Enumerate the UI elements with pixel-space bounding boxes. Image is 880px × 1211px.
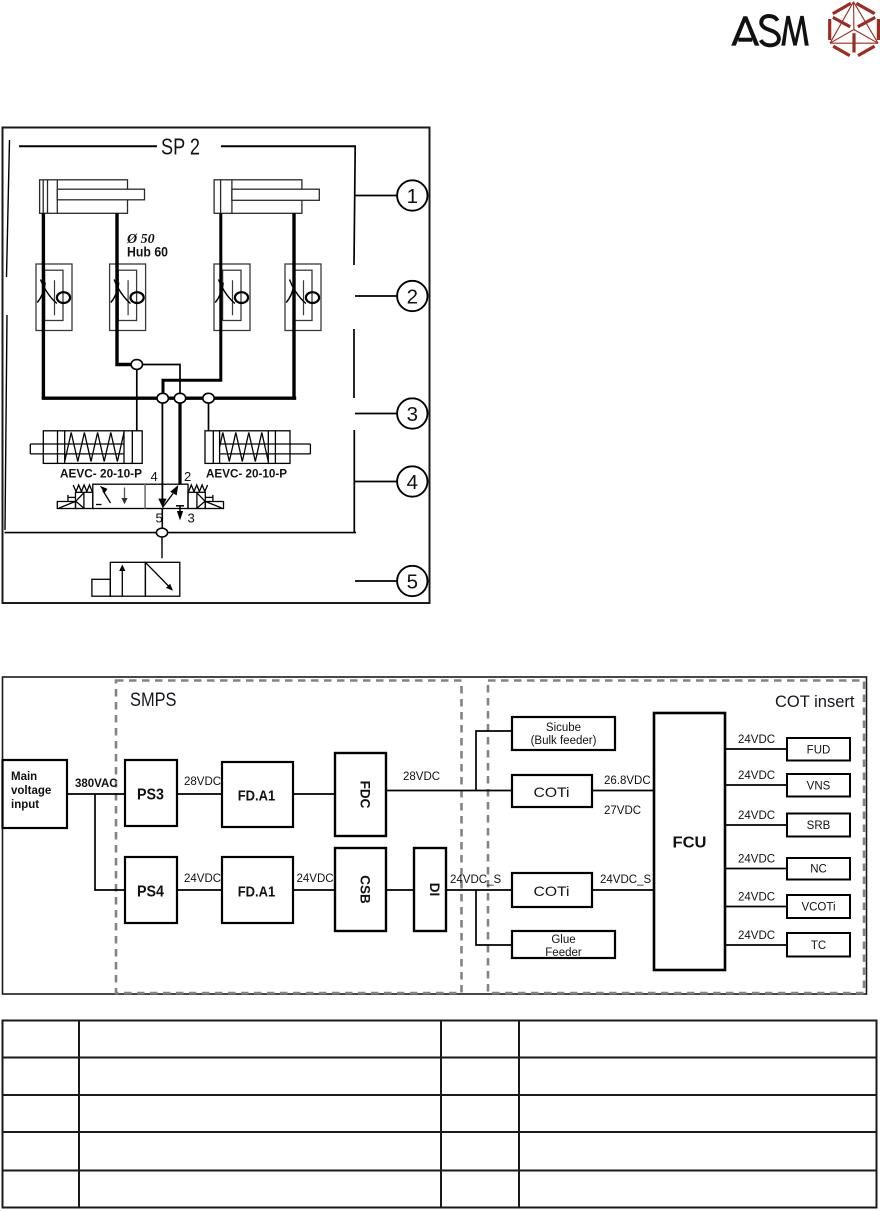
box COTi bottom: [512, 873, 592, 907]
pilot right box: [188, 492, 205, 508]
svg-text:24VDC_S: 24VDC_S: [450, 874, 501, 886]
pilot right supply step: [205, 502, 223, 509]
svg-text:FDC: FDC: [358, 781, 373, 809]
svg-text:24VDC: 24VDC: [738, 854, 775, 866]
box CSB: [335, 848, 386, 931]
box VCOTi: [787, 895, 850, 918]
svg-text:28VDC: 28VDC: [403, 771, 440, 783]
flow control valve V3: [214, 264, 250, 331]
wire FCU to SRB: [725, 824, 787, 826]
svg-text:27VDC: 27VDC: [604, 805, 641, 817]
node B junction: [157, 393, 168, 403]
box Sicube: [512, 717, 615, 750]
wire DI to COTi2: [446, 889, 512, 891]
wire node E down to 3/2 valve: [161, 537, 163, 558]
svg-text:2: 2: [407, 285, 418, 308]
wire cyl1 left port down to bus: [42, 213, 45, 398]
wire node D down to right AEVC: [208, 403, 210, 431]
wire FCU to FUD: [725, 748, 787, 750]
svg-text:Hub 60: Hub 60: [127, 245, 168, 260]
logo text ASM: [731, 16, 809, 46]
svg-text:380VAC: 380VAC: [75, 778, 118, 790]
svg-text:1: 1: [407, 185, 418, 208]
wire COTi2 to FCU: [592, 889, 654, 891]
box FDC: [335, 753, 386, 836]
svg-text:24VDC: 24VDC: [738, 734, 775, 746]
cylinder 2 (right): [214, 180, 319, 214]
wire FDC to COTi1: [386, 790, 512, 792]
outer frame box: [3, 128, 430, 604]
wire FCU to NC: [725, 868, 787, 870]
node D junction: [203, 393, 214, 403]
flow control valve V4: [285, 264, 321, 331]
table row line 4: [3, 1170, 877, 1172]
outer frame: [3, 677, 867, 994]
logo icon hexagon: [830, 2, 879, 56]
box TC: [787, 933, 850, 957]
node C junction: [174, 393, 185, 403]
svg-text:SMPS: SMPS: [130, 689, 177, 711]
manifold line horizontal: [5, 532, 357, 534]
box PS3: [125, 760, 177, 826]
COT insert dashed region: [488, 681, 864, 994]
svg-text:FUD: FUD: [807, 745, 831, 757]
svg-text:FD.A1: FD.A1: [238, 788, 276, 805]
wire node A down to left AEVC: [136, 370, 138, 431]
callout circle 5: [355, 566, 427, 596]
wire thick bus horizontal: [42, 397, 297, 400]
diagonal arrow: [146, 563, 169, 587]
title rule right: [221, 145, 356, 147]
wire PS4 to FD.A1b: [177, 889, 222, 891]
svg-text:24VDC: 24VDC: [297, 873, 334, 885]
svg-text:TC: TC: [811, 940, 826, 952]
svg-text:24VDC_S: 24VDC_S: [600, 874, 651, 886]
right chamber: port4 down arrow: [158, 499, 166, 508]
svg-text:VNS: VNS: [807, 781, 831, 793]
valve 5/2 body: [57, 484, 223, 520]
actuator AEVC left: [30, 431, 142, 464]
svg-text:SP 2: SP 2: [161, 134, 200, 160]
wire CSB to DI: [386, 889, 414, 891]
wire main to PS3: [67, 793, 125, 795]
svg-text:24VDC: 24VDC: [738, 770, 775, 782]
node A junction: [131, 360, 142, 370]
letter S: [761, 16, 779, 45]
box Glue Feeder: [512, 931, 615, 958]
svg-text:Glue: Glue: [551, 934, 575, 946]
box FCU: [654, 713, 725, 970]
letter M: [781, 16, 809, 46]
svg-text:DI: DI: [427, 883, 442, 897]
wire node B down port 4 feed: [161, 398, 163, 501]
left chamber minus: [96, 504, 102, 506]
svg-text:24VDC: 24VDC: [738, 810, 775, 822]
svg-text:2: 2: [184, 469, 191, 484]
box PS4: [125, 857, 177, 923]
svg-text:4: 4: [407, 471, 418, 494]
svg-text:24VDC: 24VDC: [738, 930, 775, 942]
title rule left: [19, 145, 157, 147]
valve 3/2 bottom: [92, 562, 180, 596]
box VNS: [787, 774, 850, 797]
svg-text:NC: NC: [810, 864, 827, 876]
node E junction: [156, 528, 167, 537]
svg-text:24VDC: 24VDC: [738, 892, 775, 904]
svg-text:Main: Main: [11, 771, 37, 783]
left chamber down arrow: [124, 488, 126, 500]
callout circle 4: [355, 466, 427, 496]
wire branch down to PS4: [95, 794, 125, 890]
wire cyl2 right port down to bus: [292, 213, 295, 398]
letter A: [731, 16, 759, 45]
svg-text:CSB: CSB: [358, 875, 373, 904]
box FD.A1 top: [222, 762, 293, 827]
svg-text:4: 4: [151, 469, 158, 484]
right chamber diagonal to port2: [163, 494, 174, 508]
up arrow: [121, 570, 123, 596]
svg-text:COT insert: COT insert: [775, 693, 855, 711]
box FUD: [787, 738, 850, 761]
wire FD.A1b to CSB: [293, 889, 335, 891]
svg-text:28VDC: 28VDC: [184, 776, 221, 788]
box SRB: [787, 814, 850, 837]
inner left border stroke b: [5, 315, 7, 530]
svg-text:FCU: FCU: [673, 835, 707, 852]
table column line 2: [440, 1021, 442, 1208]
wire cyl2 left port down then jog left: [163, 213, 221, 398]
table column line 3: [518, 1021, 520, 1208]
box Main voltage input: [3, 760, 68, 828]
flow control valve V1: [36, 264, 72, 331]
svg-text:26.8VDC: 26.8VDC: [604, 775, 651, 787]
svg-text:AEVC- 20-10-P: AEVC- 20-10-P: [206, 467, 287, 481]
svg-text:FD.A1: FD.A1: [238, 884, 276, 901]
svg-text:COTi: COTi: [534, 883, 570, 899]
svg-text:(Bulk feeder): (Bulk feeder): [531, 735, 597, 747]
svg-text:PS4: PS4: [137, 884, 164, 901]
SMPS dashed region: [116, 681, 462, 994]
svg-text:3: 3: [188, 511, 195, 526]
svg-text:5: 5: [407, 570, 418, 593]
svg-text:VCOTi: VCOTi: [801, 902, 835, 914]
callout circle 1: [355, 180, 427, 210]
pilot left box: [76, 492, 93, 508]
inner left border stroke a: [7, 140, 10, 277]
pilot left supply step: [57, 502, 75, 509]
wire FCU to VCOTi: [725, 906, 787, 908]
port 3 exhaust tee: [176, 505, 184, 507]
wire FCU to TC: [725, 944, 787, 946]
svg-text:SRB: SRB: [807, 820, 831, 832]
wire PS3 to FD.A1: [177, 793, 222, 795]
svg-text:input: input: [11, 799, 39, 811]
wire branch down to Glue Feeder: [476, 890, 512, 945]
wire FD.A1 to FDC: [293, 793, 335, 795]
table row line 1: [3, 1057, 877, 1059]
svg-text:AEVC- 20-10-P: AEVC- 20-10-P: [60, 467, 142, 481]
callout circle 2: [355, 281, 427, 311]
wire cyl1 right port down to node A: [117, 213, 131, 364]
callout circle 3: [355, 398, 427, 428]
svg-text:voltage: voltage: [11, 785, 51, 797]
wire node A to corner then down port2: [143, 365, 180, 399]
table row line 2: [3, 1094, 877, 1096]
box NC: [787, 858, 850, 880]
svg-text:Sicube: Sicube: [546, 722, 581, 734]
inner right border: [354, 146, 355, 265]
pilot left spring: [73, 485, 92, 492]
svg-text:COTi: COTi: [534, 784, 570, 800]
svg-text:PS3: PS3: [137, 787, 164, 804]
wire COTi1 to FCU: [592, 790, 654, 792]
pilot right spring: [189, 485, 208, 492]
cylinder 1 (left): [40, 180, 145, 214]
wire branch up to Sicube: [476, 731, 512, 791]
actuator AEVC right: [205, 431, 310, 464]
svg-text:Feeder: Feeder: [545, 947, 582, 959]
table column line 1: [78, 1021, 80, 1208]
wire port5 down to node E: [161, 509, 163, 528]
svg-text:24VDC: 24VDC: [184, 873, 221, 885]
left chamber arrow diagonal: [103, 491, 111, 504]
table outer border: [3, 1021, 877, 1208]
svg-text:3: 3: [407, 403, 418, 426]
table row line 3: [3, 1131, 877, 1133]
box DI: [414, 848, 446, 931]
box COTi top: [512, 775, 592, 807]
flow control valve V2: [110, 264, 146, 331]
box FD.A1 bottom: [222, 857, 293, 923]
wire FCU to VNS: [725, 784, 787, 786]
